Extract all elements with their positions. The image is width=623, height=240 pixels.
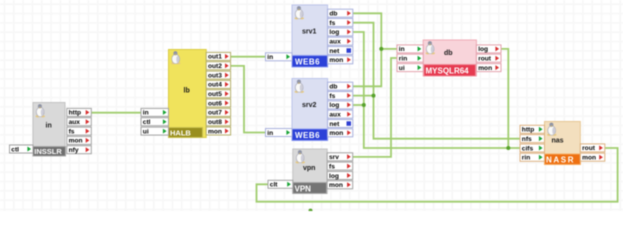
svg-text:mon: mon <box>329 130 343 137</box>
svg-text:in: in <box>267 130 273 137</box>
component srv1 (WEB6) body <box>292 5 328 67</box>
port srv2.fs <box>328 92 353 100</box>
wire in.http to lb.in <box>91 112 141 114</box>
port lb.out6 <box>206 99 230 107</box>
svg-text:out2: out2 <box>208 63 222 70</box>
port lb.out1 <box>206 52 230 60</box>
svg-text:NASR: NASR <box>546 156 575 165</box>
port lb.out8 <box>206 118 230 126</box>
port nas.cifs <box>520 144 545 152</box>
junction stub bottom edge <box>309 209 313 213</box>
svg-text:VPN: VPN <box>295 184 312 193</box>
wire srv2.fs branch <box>353 95 374 97</box>
port srv2.aux <box>328 110 353 118</box>
svg-text:rin: rin <box>399 56 407 63</box>
svg-text:fs: fs <box>329 93 335 100</box>
port db.log <box>476 45 501 53</box>
svg-text:WEB6: WEB6 <box>295 58 320 67</box>
name label vpn <box>303 165 315 172</box>
svg-text:WEB6: WEB6 <box>295 131 320 140</box>
port vpn.clt <box>268 180 293 188</box>
port nas.mon <box>580 153 605 161</box>
svg-text:INSSLR: INSSLR <box>34 147 62 156</box>
port srv1.log <box>328 28 353 36</box>
junction srv2.log <box>362 103 366 107</box>
svg-text:MYSQLR64: MYSQLR64 <box>426 67 470 76</box>
port lb.ctl <box>141 118 169 126</box>
svg-text:db: db <box>444 50 453 57</box>
svg-text:aux: aux <box>69 119 81 126</box>
wire branch to db.in <box>381 48 397 50</box>
port vpn.srv <box>327 153 353 161</box>
component srv2 (WEB6) body <box>292 79 328 141</box>
svg-text:out7: out7 <box>208 110 222 117</box>
svg-text:db: db <box>329 84 337 91</box>
port srv1.aux <box>328 37 353 45</box>
svg-text:fs: fs <box>69 128 75 135</box>
svg-text:mon: mon <box>329 182 343 189</box>
svg-text:db: db <box>329 11 337 18</box>
svg-text:log: log <box>329 102 339 109</box>
type label WEB6 <box>292 56 328 68</box>
wire srv1.log to nas.cifs <box>353 32 520 148</box>
port db.rin <box>397 54 423 62</box>
name label in <box>46 123 52 130</box>
port db.in <box>397 45 423 53</box>
svg-text:net: net <box>329 48 340 55</box>
svg-text:in: in <box>399 46 405 53</box>
wire srv1.fs to nas.nfs <box>353 23 520 139</box>
type label INSSLR <box>33 147 66 157</box>
port srv1.in <box>266 53 293 61</box>
port in.mon <box>67 136 92 144</box>
svg-text:fs: fs <box>329 20 335 27</box>
svg-text:ui: ui <box>143 128 149 135</box>
svg-text:out8: out8 <box>208 119 222 126</box>
port nas.rin <box>520 153 545 161</box>
svg-text:fs: fs <box>329 163 335 170</box>
svg-text:mon: mon <box>329 57 343 64</box>
svg-text:http: http <box>69 110 81 117</box>
name label srv1 <box>302 29 317 36</box>
component db (MYSQLR64) body <box>423 40 476 76</box>
port nas.nfs <box>520 135 545 143</box>
penguin icon of srv1 <box>295 6 304 19</box>
svg-text:mon: mon <box>478 65 492 72</box>
port in.aux <box>67 118 92 126</box>
svg-text:out3: out3 <box>208 72 222 79</box>
port lb.out5 <box>206 90 230 98</box>
svg-text:http: http <box>522 127 534 134</box>
type label MYSQLR64 <box>424 65 476 77</box>
name label nas <box>552 138 564 145</box>
port vpn.log <box>327 172 353 180</box>
svg-text:cifs: cifs <box>522 145 534 152</box>
port db.ui <box>397 64 423 72</box>
port srv1.db <box>328 9 353 17</box>
port srv1.mon <box>328 56 353 64</box>
port vpn.mon <box>327 181 353 189</box>
svg-text:in: in <box>267 54 273 61</box>
type label VPN <box>293 183 327 194</box>
wire nas.rout to vpn.clt <box>257 148 618 202</box>
port lb.out4 <box>206 80 230 88</box>
name label db <box>444 50 453 57</box>
name label lb <box>184 88 190 95</box>
port srv2.db <box>328 82 353 90</box>
svg-text:srv2: srv2 <box>302 102 317 109</box>
type label HALB <box>169 128 203 138</box>
svg-text:mon: mon <box>208 128 222 135</box>
penguin icon of srv2 <box>295 80 304 93</box>
svg-text:out1: out1 <box>208 54 222 61</box>
svg-text:nfy: nfy <box>69 147 79 154</box>
junction db.log on cifs net <box>506 146 510 150</box>
svg-text:log: log <box>329 173 339 180</box>
wire db.log branch <box>501 49 508 148</box>
port srv2.net <box>328 120 353 128</box>
svg-text:mon: mon <box>582 155 596 162</box>
svg-text:nfs: nfs <box>522 136 532 143</box>
svg-text:out4: out4 <box>208 82 222 89</box>
port srv2.mon <box>328 129 353 137</box>
port srv2.in <box>266 129 293 137</box>
port db.rout <box>476 54 501 62</box>
port srv1.fs <box>328 19 353 27</box>
svg-text:srv1: srv1 <box>302 29 317 36</box>
junction db.in branch <box>379 47 383 51</box>
wire vpn.srv to db.rin <box>353 58 397 157</box>
port lb.out7 <box>206 108 230 116</box>
port vpn.fs <box>327 162 353 170</box>
component in (INSSLR) body <box>33 103 65 157</box>
svg-text:log: log <box>478 46 488 53</box>
port db.mon <box>476 64 501 72</box>
port lb.mon <box>206 127 230 135</box>
svg-text:HALB: HALB <box>170 129 191 138</box>
svg-text:in: in <box>46 123 52 130</box>
port lb.ui <box>141 127 169 135</box>
svg-text:in: in <box>143 110 149 117</box>
wire srv2.log branch <box>353 104 364 106</box>
svg-text:vpn: vpn <box>303 165 315 172</box>
junction srv2.fs <box>372 94 376 98</box>
svg-text:rout: rout <box>478 56 492 63</box>
penguin icon of vpn <box>296 150 305 163</box>
penguin icon of nas <box>547 123 556 136</box>
svg-text:clt: clt <box>270 182 278 189</box>
svg-text:ctl: ctl <box>11 146 19 153</box>
svg-text:out6: out6 <box>208 100 222 107</box>
port nas.rout <box>580 144 605 152</box>
wire lb.out1 to srv1.in <box>231 56 266 58</box>
type label WEB6 of srv2 <box>292 129 328 141</box>
wire srv1.db / srv2.db trunk <box>353 13 382 86</box>
port srv1.net <box>328 47 353 55</box>
svg-text:rin: rin <box>522 155 530 162</box>
svg-text:rout: rout <box>582 145 596 152</box>
port lb.in <box>141 108 169 116</box>
port lb.out3 <box>206 71 230 79</box>
svg-text:mon: mon <box>69 138 83 145</box>
svg-text:net: net <box>329 121 340 128</box>
component vpn (VPN) body <box>293 149 327 194</box>
type label NASR <box>545 154 581 165</box>
port nas.http <box>520 125 545 133</box>
svg-text:ctl: ctl <box>143 119 151 126</box>
penguin icon of in <box>36 104 45 117</box>
penguin icon of db <box>426 41 435 54</box>
svg-text:srv: srv <box>329 154 339 161</box>
port srv2.log <box>328 101 353 109</box>
port in.fs <box>67 127 92 135</box>
svg-text:ui: ui <box>399 65 405 72</box>
component nas (NASR) body <box>545 122 581 165</box>
port in.http <box>67 108 92 116</box>
svg-text:lb: lb <box>184 88 190 95</box>
svg-text:aux: aux <box>329 112 341 119</box>
svg-text:nas: nas <box>552 138 564 145</box>
port lb.out2 <box>206 62 230 70</box>
port in.nfy <box>67 146 92 154</box>
penguin icon of lb <box>171 51 180 64</box>
wire lb.out2 to srv2.in <box>231 66 266 133</box>
svg-text:out5: out5 <box>208 91 222 98</box>
port in.ctl <box>10 145 34 153</box>
name label srv2 <box>302 102 317 109</box>
svg-text:aux: aux <box>329 39 341 46</box>
component lb (HALB) body <box>169 50 207 138</box>
svg-text:log: log <box>329 29 339 36</box>
